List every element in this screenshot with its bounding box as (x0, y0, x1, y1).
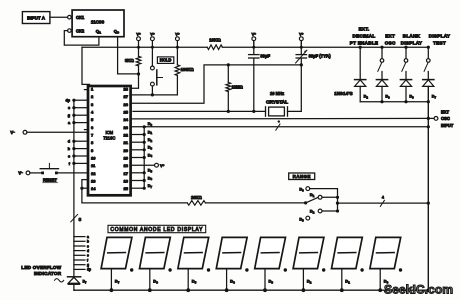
wire diode common bus (360, 100, 430, 103)
wire digit 3 cathode stub (186, 269, 196, 293)
svg-text:a: a (87, 235, 89, 239)
display digit 3 (178, 237, 210, 271)
wire pin 23 D0 line (131, 121, 430, 129)
terminal V- reset (18, 170, 41, 175)
wire digit D1 stub (131, 129, 153, 136)
V+ terminal 2 (150, 31, 155, 48)
svg-text:39pF (TYP.): 39pF (TYP.) (309, 53, 332, 58)
svg-text:EXT: EXT (441, 110, 449, 115)
svg-text:CK1: CK1 (76, 15, 85, 20)
svg-text:LED OVERFLOW: LED OVERFLOW (21, 265, 61, 270)
wire/switch column 2 (359, 46, 362, 80)
wire digit D2 stub (131, 137, 153, 144)
svg-text:g: g (68, 114, 70, 118)
LED overflow indicator (55, 277, 88, 290)
wire pins 13-14 to range line (80, 180, 187, 203)
wire segment c (68, 154, 88, 158)
svg-text:OSC: OSC (441, 116, 450, 121)
resistor R2 100K (175, 47, 194, 95)
svg-text:D7: D7 (148, 183, 153, 189)
capacitor C2 39pF variable (296, 41, 332, 67)
switch RANGE rotary (299, 187, 322, 223)
svg-text:D0: D0 (148, 121, 153, 127)
svg-text:c: c (87, 244, 89, 248)
wire display bottom bus (74, 288, 430, 292)
display digit 5 (255, 237, 287, 271)
diode to D7 (1N914) (423, 80, 437, 100)
svg-text:D1: D1 (345, 279, 350, 285)
svg-text:V+: V+ (160, 163, 165, 168)
svg-text:D1: D1 (148, 129, 153, 135)
display digit 2 (140, 237, 172, 271)
label EXT. DECIMAL PT ENABLE (350, 26, 379, 45)
svg-text:7216C: 7216C (103, 135, 115, 140)
switch HOLD pushbutton (151, 47, 163, 96)
svg-text:D6: D6 (153, 279, 158, 285)
wire digit D4 stub (131, 152, 153, 159)
svg-text:D5: D5 (148, 168, 153, 174)
wire segment dp (65, 99, 88, 103)
svg-text:V+: V+ (299, 31, 304, 36)
wire/switch column 3 (402, 46, 408, 80)
wire digit 5 cathode stub (263, 269, 273, 293)
V+ terminal 5 (299, 31, 304, 48)
label RANGE (289, 173, 315, 180)
chip left pin stubs (84, 90, 88, 130)
svg-text:1N914'S: 1N914'S (334, 91, 353, 96)
svg-text:DISPLAY: DISPLAY (429, 34, 450, 39)
svg-text:e: e (68, 106, 70, 110)
svg-text:4: 4 (382, 196, 384, 200)
svg-text:V–: V– (10, 130, 15, 135)
svg-text:D7: D7 (432, 95, 437, 100)
svg-text:SeekIC.com: SeekIC.com (384, 283, 453, 297)
svg-text:D1: D1 (310, 192, 315, 198)
svg-text:CK2: CK2 (76, 28, 85, 33)
svg-text:21: 21 (124, 140, 129, 145)
svg-text:10: 10 (91, 156, 96, 161)
svg-text:d: d (87, 249, 89, 253)
connector INPUT A (22, 12, 50, 24)
resistor R1 3K (125, 47, 141, 66)
svg-text:dp: dp (65, 99, 70, 103)
display digit 4 (216, 237, 248, 271)
svg-text:18: 18 (124, 163, 129, 168)
svg-text:26: 26 (124, 102, 129, 107)
svg-text:23: 23 (124, 125, 129, 130)
svg-text:100KΩ: 100KΩ (181, 67, 195, 72)
svg-text:D5: D5 (192, 279, 197, 285)
diode to D6 (1N914) (376, 80, 390, 102)
bus marker on D0 line (276, 120, 280, 130)
bus marker 8 (71, 214, 82, 222)
svg-text:D7: D7 (83, 279, 87, 284)
display digit 7 (332, 237, 364, 271)
IC U1 ICM 7216C (88, 86, 131, 195)
wire digit 8 cathode stub (378, 269, 388, 293)
svg-text:24: 24 (124, 117, 129, 122)
wire QC output down (118, 37, 137, 74)
switch RESET pushbutton (40, 163, 88, 182)
terminal V- pin7 (10, 130, 88, 135)
svg-text:V–: V– (18, 170, 23, 175)
svg-text:D2: D2 (310, 209, 315, 215)
wire segment a (68, 121, 88, 125)
capacitor C1 39pF (249, 41, 271, 114)
svg-text:D2: D2 (148, 137, 153, 143)
svg-text:14: 14 (91, 186, 96, 191)
svg-text:D3: D3 (148, 145, 153, 151)
svg-text:INPUT: INPUT (441, 123, 454, 128)
svg-text:10KΩ: 10KΩ (209, 38, 221, 43)
svg-text:D3: D3 (299, 216, 304, 222)
svg-text:dp: dp (87, 268, 91, 272)
svg-text:DISPLAY: DISPLAY (401, 40, 422, 45)
svg-text:V+: V+ (175, 31, 180, 36)
label DISPLAY TEST (429, 34, 450, 46)
wire segment e (68, 106, 88, 110)
wire digit 6 cathode stub (302, 269, 312, 293)
wire/switch column 7 (424, 46, 430, 80)
svg-text:c: c (68, 154, 70, 158)
svg-text:BLANK: BLANK (403, 34, 421, 39)
svg-text:INDICATOR: INDICATOR (34, 271, 62, 276)
wire digit 7 cathode stub (340, 269, 350, 293)
svg-text:b: b (87, 240, 89, 244)
svg-text:V+: V+ (136, 31, 141, 36)
svg-text:COMMON ANODE LED DISPLAY: COMMON ANODE LED DISPLAY (110, 227, 203, 233)
svg-text:D0: D0 (299, 187, 304, 193)
svg-text:19: 19 (124, 156, 129, 161)
svg-text:28: 28 (124, 87, 129, 92)
diode to D2 (1N914) (355, 80, 369, 102)
wire range contacts bus (310, 189, 339, 213)
wire digit D6 stub (131, 175, 153, 182)
svg-text:20: 20 (124, 148, 129, 153)
V+ terminal 1 (136, 31, 141, 48)
svg-text:25: 25 (124, 110, 129, 115)
wire digit D3 stub (131, 145, 153, 152)
wire digit 2 cathode stub (148, 269, 158, 293)
svg-text:b: b (68, 147, 71, 151)
svg-text:D7: D7 (115, 279, 120, 285)
label 1N914's (334, 91, 353, 96)
svg-text:INPUT A: INPUT A (27, 15, 46, 20)
svg-text:3KΩ: 3KΩ (125, 58, 134, 63)
wire range output (338, 202, 430, 205)
label EXT OSC (385, 34, 396, 46)
resistor R3 22M (226, 63, 244, 113)
wire V+ rail to pin 1 (82, 47, 90, 84)
wire 3K to pin 28 (131, 66, 140, 88)
display digit 6 (293, 237, 325, 271)
watermark SeekIC.com (384, 283, 453, 297)
wire pin 24 ext osc line (131, 117, 435, 120)
label HOLD (157, 57, 173, 64)
svg-text:g: g (87, 263, 89, 267)
svg-text:RANGE: RANGE (293, 174, 311, 179)
svg-text:RESET: RESET (43, 178, 57, 183)
wire digit D7 stub (131, 183, 153, 190)
wire segment b (68, 147, 88, 151)
wire segment g (68, 114, 88, 118)
terminal EXT OSC INPUT (434, 110, 454, 128)
svg-text:a: a (68, 121, 71, 125)
svg-text:D2: D2 (307, 279, 312, 285)
wire INPUT A to CK1 (50, 16, 67, 18)
V+ terminal 4 (252, 31, 257, 48)
svg-text:TEST: TEST (433, 40, 446, 45)
diode to D3 (1N914) (400, 80, 414, 102)
label common anode led display (108, 225, 206, 233)
svg-text:22MΩ: 22MΩ (232, 85, 244, 90)
svg-text:12: 12 (91, 171, 96, 176)
svg-text:f: f (87, 258, 89, 262)
wire segment f (69, 162, 88, 166)
wire right vertical bus (427, 86, 429, 290)
svg-text:D2: D2 (364, 95, 369, 100)
V+ terminal 3 (175, 31, 180, 48)
digit bus vertical at chip (143, 127, 145, 188)
pin numbers left 1-14 (91, 87, 96, 192)
svg-text:16: 16 (124, 179, 129, 184)
svg-text:f: f (69, 162, 71, 166)
pin numbers right 28-15 (124, 87, 129, 192)
svg-text:27: 27 (124, 94, 129, 99)
svg-text:ICM: ICM (106, 130, 114, 135)
label LED OVERFLOW INDICATOR (21, 265, 61, 276)
svg-text:39pF: 39pF (260, 53, 270, 58)
svg-text:8: 8 (79, 217, 82, 222)
svg-text:EXT: EXT (385, 34, 395, 39)
segment fanout to display (74, 235, 91, 272)
svg-text:CRYSTAL: CRYSTAL (266, 99, 288, 105)
wire segment d (68, 140, 88, 144)
svg-text:e: e (87, 254, 89, 258)
wire QA feedback to CK2 (64, 31, 99, 45)
prescaler U2 11C90 (68, 10, 124, 37)
resistor 10K (V+ rail) (207, 38, 222, 50)
svg-text:11C90: 11C90 (91, 19, 105, 24)
svg-text:10 MHz: 10 MHz (270, 91, 284, 96)
svg-text:13: 13 (91, 179, 96, 184)
svg-text:DECIMAL: DECIMAL (353, 34, 376, 39)
svg-text:D4: D4 (230, 279, 235, 285)
svg-text:OSC: OSC (385, 40, 396, 45)
wire digit 1 cathode stub (110, 269, 120, 293)
svg-text:D6: D6 (148, 175, 153, 181)
segment bus vertical (73, 101, 75, 277)
crystal Y1 10 MHz (266, 65, 302, 116)
svg-text:D3: D3 (409, 95, 414, 100)
wire pin 25 crystal net (133, 110, 266, 112)
display digit 1 (101, 237, 133, 271)
terminal V+ pin 18 (131, 163, 165, 168)
wire V+ rail (82, 46, 428, 48)
wire digit 4 cathode stub (225, 269, 235, 293)
resistor R4 10K (range) (187, 195, 305, 205)
svg-text:15: 15 (124, 186, 129, 191)
svg-text:EXT.: EXT. (359, 26, 370, 31)
svg-text:PT ENABLE: PT ENABLE (350, 40, 379, 45)
svg-text:22: 22 (124, 133, 129, 138)
wire digit D5 stub (131, 168, 153, 175)
svg-text:17: 17 (124, 171, 129, 176)
display digit 8 (370, 237, 402, 271)
bus marker on range line (380, 196, 384, 207)
svg-text:HOLD: HOLD (160, 58, 172, 63)
wire pin 27 (hold net) (131, 94, 178, 96)
svg-text:10KΩ: 10KΩ (191, 195, 203, 200)
label BLANK DISPLAY (401, 34, 422, 46)
svg-text:V+: V+ (150, 31, 155, 36)
svg-text:D3: D3 (269, 279, 274, 285)
wire pin 26 oscillator net (131, 65, 302, 103)
svg-text:D6: D6 (385, 95, 390, 100)
svg-text:V+: V+ (252, 31, 257, 36)
svg-text:d: d (68, 140, 71, 144)
wire/switch column 6 (378, 46, 384, 80)
svg-text:D4: D4 (148, 152, 153, 158)
